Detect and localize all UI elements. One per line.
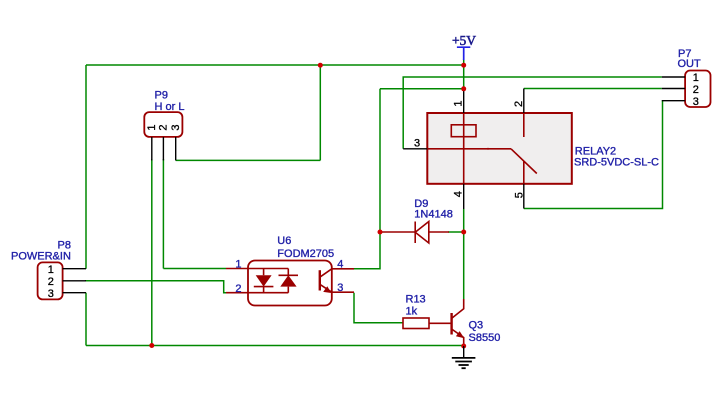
junction dot top rail <box>461 63 466 68</box>
svg-text:1: 1 <box>146 124 158 130</box>
pin 2 of P9 <box>162 137 164 160</box>
svg-text:U6: U6 <box>277 235 291 247</box>
pin 2 of U6 <box>226 292 248 294</box>
pin 3 of P7 <box>662 100 685 102</box>
relay switch blade <box>511 149 537 174</box>
svg-text:2: 2 <box>513 101 525 107</box>
svg-text:1: 1 <box>453 100 465 106</box>
U6 input LED pair rails <box>248 269 288 293</box>
junction dot bottom rail P9 pin1 <box>149 343 154 348</box>
relay internal pin5 stub <box>523 162 525 184</box>
wire U6 pin3 to R13 <box>354 293 403 323</box>
connector P9 <box>144 89 184 160</box>
svg-text:P9: P9 <box>155 89 168 101</box>
svg-text:FODM2705: FODM2705 <box>277 248 334 260</box>
wire relay pin5 to P7 pin3 <box>524 101 663 209</box>
svg-text:4: 4 <box>337 259 343 271</box>
wire left rail x=86 down to P8 pin1 <box>85 65 87 269</box>
pin 2 of relay <box>523 89 525 114</box>
relay internal common line <box>427 148 511 150</box>
wire P9 pin1 down x=151.8 <box>151 159 153 346</box>
pin 1 of relay <box>463 89 465 113</box>
junction dot D9 cathode <box>378 230 383 235</box>
pin 4 of U6 <box>332 268 354 270</box>
wire x=380 down to U6 pin4 <box>354 89 380 269</box>
junction dot +5V/relay pin1 <box>461 86 466 91</box>
svg-text:OUT: OUT <box>678 58 702 70</box>
wire D9 anode to coil column <box>448 231 464 233</box>
wire P9 pin2 down x=163.4 <box>162 159 164 269</box>
junction dot P9 branch <box>318 63 323 68</box>
pin 3 of P9 <box>175 137 177 160</box>
pin 5 of relay <box>523 184 525 209</box>
wire relay pin4 down to Q3 collector <box>463 209 465 299</box>
svg-text:1: 1 <box>235 259 241 271</box>
wire relay pin2 to P7 pin2 y=88.5 <box>524 88 662 90</box>
svg-text:3: 3 <box>414 138 420 150</box>
svg-text:1: 1 <box>48 264 54 276</box>
optocoupler U6 <box>226 235 354 305</box>
pin 1 of P8 <box>63 268 86 270</box>
wire +5V column green segment <box>463 59 465 89</box>
svg-text:S8550: S8550 <box>469 332 501 344</box>
pin 3 of P8 <box>63 292 86 294</box>
U6 phototransistor <box>319 270 321 290</box>
svg-text:Q3: Q3 <box>469 319 484 331</box>
svg-text:4: 4 <box>452 191 464 197</box>
svg-text:2: 2 <box>235 283 241 295</box>
Q3 emitter <box>452 329 464 346</box>
svg-text:3: 3 <box>693 96 699 108</box>
svg-text:3: 3 <box>337 282 343 294</box>
svg-text:R13: R13 <box>406 294 426 306</box>
pin 1 of P7 <box>662 76 685 78</box>
wire P8 pin3 down x=86 <box>85 293 87 346</box>
U6 LED right (cathode up) <box>279 269 299 293</box>
svg-text:2: 2 <box>48 276 54 288</box>
relay coil <box>451 125 476 137</box>
U6 LED left (cathode down) <box>254 269 274 293</box>
transistor Q3 <box>452 299 501 346</box>
svg-text:2: 2 <box>157 124 169 130</box>
pin 2 of P7 <box>662 88 685 90</box>
wire bottom rail y=345.5 <box>86 345 464 347</box>
pin 3 of U6 <box>332 291 354 293</box>
junction dot D9 anode <box>461 230 466 235</box>
power +5V <box>452 33 476 60</box>
svg-text:1N4148: 1N4148 <box>414 209 453 221</box>
Q3 collector <box>452 299 464 318</box>
svg-text:3: 3 <box>170 124 182 130</box>
pin 1 of U6 <box>226 268 248 270</box>
svg-text:+5V: +5V <box>452 33 476 48</box>
svg-text:2: 2 <box>693 84 699 96</box>
relay RELAY2 <box>403 89 659 210</box>
connector P7 <box>662 48 711 108</box>
wire top rail y=65 <box>86 64 464 66</box>
svg-text:H or L: H or L <box>155 101 185 113</box>
svg-text:SRD-5VDC-SL-C: SRD-5VDC-SL-C <box>574 157 659 169</box>
wire x=320 from top rail down <box>319 65 321 160</box>
pin 4 of relay <box>463 184 465 209</box>
diode D9 <box>381 198 453 243</box>
wire y=88.8 dot to x=380 <box>380 88 464 90</box>
wire relay pin3 to P7 pin1 y=77 <box>403 77 662 149</box>
svg-text:5: 5 <box>513 192 525 198</box>
pin 3 of relay <box>403 148 427 150</box>
svg-text:POWER&IN: POWER&IN <box>11 250 71 262</box>
wire y=160 to P9 pin3 <box>176 159 321 161</box>
svg-text:1: 1 <box>693 72 699 84</box>
Q3 base bar <box>450 313 452 335</box>
connector P8 <box>11 239 86 300</box>
pin 1 of P9 <box>151 137 153 160</box>
pin 2 of P8 <box>63 280 86 282</box>
relay internal coil line pin1-pin4 <box>463 113 465 184</box>
svg-text:1k: 1k <box>406 305 418 317</box>
wire y=268.5 to U6 pin1 <box>163 268 226 270</box>
relay internal contact pin2 stub <box>523 113 525 137</box>
svg-text:RELAY2: RELAY2 <box>575 145 616 157</box>
svg-text:3: 3 <box>48 288 54 300</box>
relay pivot dot <box>487 148 489 150</box>
junction dot Q3 emitter <box>461 344 466 349</box>
ground <box>452 346 476 368</box>
resistor R13 <box>403 294 452 329</box>
wire P8 pin2 to U6 pin2 <box>85 281 226 293</box>
